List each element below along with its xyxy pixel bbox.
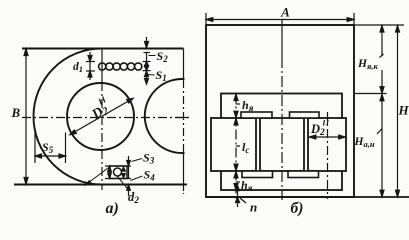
leader S2 bbox=[149, 55, 156, 57]
sheet bottom edge line bbox=[14, 184, 187, 186]
hole d2 bbox=[114, 168, 122, 176]
right side: top tick to H lines bbox=[354, 24, 404, 26]
svg-text:В: В bbox=[11, 105, 21, 120]
bottom tab 1 bbox=[242, 171, 273, 178]
dimension B vertical bbox=[24, 49, 28, 185]
leader d2 bbox=[118, 177, 130, 191]
bottom tab 2 bbox=[288, 171, 319, 178]
dimension h_ya bottom arrows bbox=[234, 171, 240, 190]
axis of F3 bbox=[327, 112, 329, 199]
dimension l_c arrows bbox=[234, 118, 240, 170]
svg-text:а): а) bbox=[106, 200, 119, 217]
front segment F1 bbox=[211, 118, 256, 171]
dimension n arrows bbox=[236, 185, 247, 207]
slot chain: six small circles bbox=[99, 63, 142, 70]
bottom base line extended bbox=[206, 196, 409, 198]
outer rect of b) bbox=[206, 25, 354, 197]
svg-text:n: n bbox=[250, 200, 257, 215]
leader S1 bbox=[148, 74, 155, 77]
top tab 2 bbox=[290, 112, 320, 118]
right cut axis line of a) bbox=[183, 49, 185, 81]
diagonal mark at bottom slot bbox=[85, 167, 110, 186]
svg-text:Н: Н bbox=[398, 103, 409, 118]
axis: vertical centerline of a) bbox=[22, 49, 190, 195]
dimension d1 bbox=[86, 52, 95, 80]
dimension h_ya top: line on F1 axis bbox=[234, 94, 240, 200]
leader S4 bbox=[131, 176, 143, 181]
outer circle arc bbox=[34, 49, 102, 185]
svg-text:б): б) bbox=[291, 200, 304, 217]
front segment F2 bbox=[260, 118, 304, 171]
dimension D2'' in b) bbox=[309, 135, 346, 139]
dimension H_ya,k / H_a,n line bbox=[377, 26, 384, 197]
svg-text:А: А bbox=[280, 5, 290, 20]
label D2'' rotated bbox=[87, 97, 114, 124]
dimension S2/S1 column bbox=[143, 37, 151, 84]
center cross tick on half circle bbox=[176, 117, 188, 119]
left inner arrows bbox=[109, 166, 111, 179]
dimension D2'' diagonal arrow bbox=[70, 98, 133, 134]
slot rectangle bottom with round hole bbox=[110, 166, 127, 179]
sheet top edge line bbox=[22, 48, 184, 50]
axis: horizontal centerline of a) bbox=[22, 117, 190, 119]
dimension A bbox=[206, 13, 354, 25]
tick between H_ya,k and H_a,n bbox=[354, 93, 387, 95]
right column S3/S4 bbox=[128, 156, 130, 179]
dimension ticks for slot rect bbox=[105, 156, 131, 196]
dimension H line bbox=[396, 26, 400, 197]
back layer rect bbox=[221, 94, 342, 191]
leader S3 bbox=[132, 159, 143, 162]
dimension S5 bbox=[35, 133, 66, 164]
center axis of b) bbox=[281, 20, 283, 58]
vent hole half circle right bbox=[145, 79, 185, 153]
front segment F3 bbox=[308, 118, 346, 171]
vent hole circle D2 bbox=[67, 83, 134, 150]
top tab 1 bbox=[241, 112, 272, 118]
